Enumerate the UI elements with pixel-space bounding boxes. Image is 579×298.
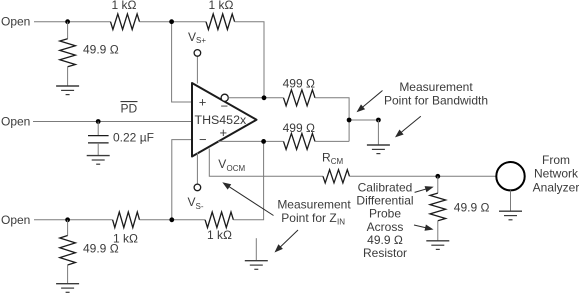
resistor 49.9 Ohm (top termination)	[60, 39, 76, 67]
svg-text:Differential: Differential	[356, 194, 413, 208]
svg-text:49.9 Ω: 49.9 Ω	[454, 201, 490, 215]
svg-text:49.9 Ω: 49.9 Ω	[83, 43, 119, 57]
wire stub to 49.9 ohm resistor (bottom)	[67, 220, 69, 236]
junction bottom rail feedback tap	[169, 217, 174, 222]
ground bars (Zin measurement)	[245, 261, 268, 270]
wire bottom output	[218, 140, 284, 142]
svg-text:1 kΩ: 1 kΩ	[207, 228, 232, 242]
pin VOCM and wire to RCM	[209, 149, 323, 177]
wire capacitor top lead	[97, 122, 99, 136]
svg-text:Analyzer: Analyzer	[533, 180, 579, 194]
wire from top-rail junction down to amplifier + input	[172, 22, 192, 102]
net label PD (with overbar)	[121, 102, 138, 116]
resistor 49.9 Ohm (bottom termination)	[60, 236, 76, 266]
wire bottom rail between resistors	[140, 219, 206, 221]
svg-text:V: V	[188, 30, 196, 44]
arrow from Calibrated note to probe node	[415, 186, 434, 192]
wire top feedback corner down to output node	[235, 22, 264, 98]
power pin VS-	[188, 153, 204, 212]
svg-text:R: R	[322, 151, 331, 165]
svg-text:From: From	[542, 153, 570, 167]
svg-text:Probe: Probe	[369, 207, 401, 221]
wire PD rail	[33, 121, 192, 123]
ground (probe resistor)	[426, 241, 449, 250]
svg-text:Across: Across	[367, 220, 404, 234]
resistor R 1 kOhm (top input)	[111, 14, 140, 30]
svg-text:V: V	[218, 157, 226, 171]
resistor RCM	[323, 170, 350, 183]
resistor Rf 1 kOhm (bottom feedback)	[205, 212, 233, 228]
resistor 49.9 Ohm (probe)	[430, 193, 446, 221]
junction bottom output node	[261, 139, 266, 144]
label Measurement Point for Bandwidth	[384, 80, 488, 107]
arrow to bandwidth ground	[395, 116, 421, 137]
wire measurement tap to ground stub	[349, 119, 378, 121]
svg-text:+: +	[220, 125, 228, 140]
wire top output	[228, 97, 283, 99]
resistor 499 Ohm (bottom output)	[284, 133, 316, 149]
wire stub to 49.9 ohm resistor (top)	[67, 22, 69, 39]
junction top output node	[262, 95, 267, 100]
wire 49.9 ohm to ground (top)	[67, 67, 69, 86]
svg-text:Measurement: Measurement	[399, 80, 473, 94]
arrow to VOCM node (Zin measurement)	[222, 182, 273, 215]
op-amp U1 THS452x fully differential amplifier	[192, 83, 257, 157]
wire from bottom-rail junction up to amplifier - input	[172, 140, 192, 220]
capacitor 0.22 uF	[88, 131, 154, 145]
ground (measurement point for Zin)	[255, 238, 257, 260]
svg-text:0.22 µF: 0.22 µF	[113, 131, 154, 145]
power pin VS+	[188, 30, 206, 84]
wire RCM to network analyzer	[350, 175, 497, 177]
junction top rail feedback tap	[169, 19, 174, 24]
wire 49.9 ohm to ground (bottom)	[67, 265, 69, 284]
svg-text:S-: S-	[196, 202, 204, 211]
wire top rail from Open to R1	[34, 21, 111, 23]
resistor R 1 kOhm (bottom input)	[113, 212, 140, 228]
label Measurement Point for Zin	[277, 198, 351, 227]
source: From Network Analyzer circle	[496, 162, 524, 190]
svg-text:IN: IN	[337, 218, 345, 227]
arrow to Zin ground	[275, 230, 299, 253]
svg-text:49.9 Ω: 49.9 Ω	[83, 242, 119, 256]
svg-text:1 kΩ: 1 kΩ	[209, 0, 234, 12]
wire top rail between resistors	[140, 21, 207, 23]
svg-text:Resistor: Resistor	[363, 246, 407, 260]
output inversion bubble on top output	[221, 94, 228, 101]
svg-text:S+: S+	[196, 36, 206, 45]
svg-text:Network: Network	[534, 166, 579, 180]
svg-text:1 kΩ: 1 kΩ	[112, 0, 137, 12]
label From Network Analyzer	[533, 153, 579, 194]
svg-text:Open: Open	[1, 115, 30, 129]
svg-text:Measurement: Measurement	[277, 198, 351, 212]
wire capacitor bottom lead	[97, 143, 99, 156]
svg-text:Point for Bandwidth: Point for Bandwidth	[384, 93, 488, 107]
svg-text:PD: PD	[121, 102, 138, 116]
resistor Rf 1 kOhm (top feedback)	[206, 14, 235, 30]
label RCM	[322, 151, 343, 166]
svg-text:Open: Open	[1, 15, 30, 29]
net label VOCM	[218, 157, 245, 173]
wire network analyzer to ground	[510, 190, 512, 211]
svg-text:OCM: OCM	[227, 164, 246, 173]
junction bottom Open node	[65, 217, 70, 222]
svg-text:499 Ω: 499 Ω	[283, 121, 315, 135]
wire bottom feedback corner up to output node	[233, 141, 263, 219]
wire bottom rail from Open to R3	[34, 219, 113, 221]
arrow from Across note to probe resistor	[414, 225, 434, 231]
ground (bandwidth measurement)	[367, 145, 390, 154]
junction PD / capacitor node	[96, 119, 101, 124]
svg-text:499 Ω: 499 Ω	[283, 77, 315, 91]
ground (top 49.9 ohm)	[56, 86, 79, 95]
ground (capacitor)	[87, 156, 110, 165]
junction top Open node	[65, 19, 70, 24]
junction measurement point for bandwidth	[347, 118, 352, 123]
label Calibrated Differential Probe Across 49.9 Ohm Resistor	[356, 180, 413, 260]
svg-text:+: +	[199, 95, 207, 110]
ground (bottom 49.9 ohm)	[56, 284, 79, 293]
wire down to bandwidth ground	[377, 120, 379, 145]
wire top 499 to measurement junction	[315, 98, 349, 142]
arrow to bandwidth measurement junction	[357, 91, 383, 113]
wire 49.9 probe resistor to ground	[437, 221, 439, 241]
svg-text:−: −	[199, 132, 207, 147]
ground (network analyzer)	[499, 211, 522, 220]
svg-text:Point for Z: Point for Z	[281, 211, 336, 225]
svg-text:V: V	[188, 195, 196, 209]
wire bottom 499 to measurement junction	[315, 140, 349, 142]
svg-text:Open: Open	[1, 213, 30, 227]
svg-text:49.9 Ω: 49.9 Ω	[367, 233, 403, 247]
resistor 499 Ohm (top output)	[284, 90, 316, 106]
wire stub to 49.9 ohm probe resistor	[437, 176, 439, 193]
junction probe node	[435, 174, 440, 179]
svg-text:Calibrated: Calibrated	[358, 180, 413, 194]
junction ground tap	[376, 118, 381, 123]
svg-text:CM: CM	[331, 157, 344, 166]
